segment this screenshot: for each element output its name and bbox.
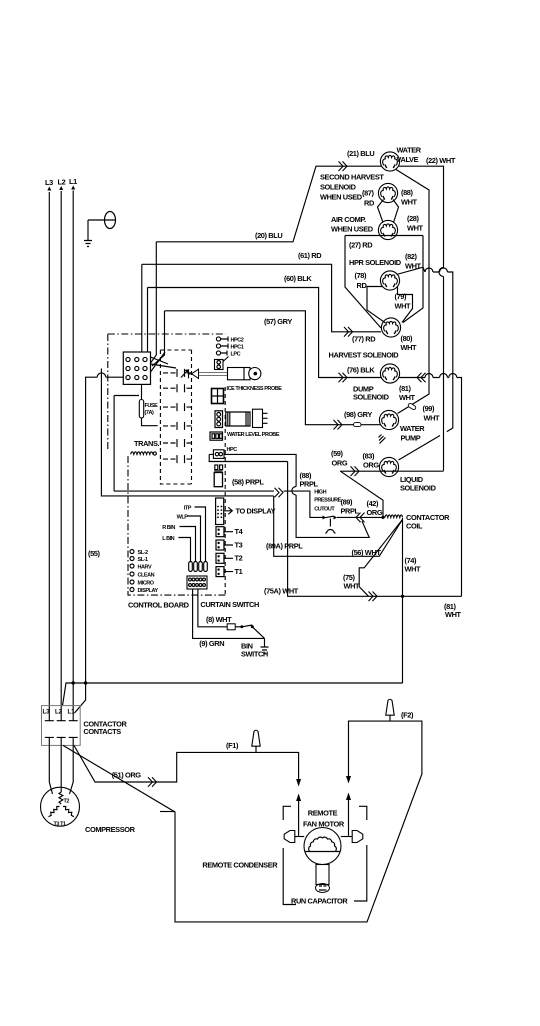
- svg-text:HARVEST SOLENOID: HARVEST SOLENOID: [329, 351, 400, 360]
- ground hatch at water pump: [379, 435, 386, 444]
- svg-text:HPC: HPC: [227, 447, 238, 453]
- contactor coil K1: [385, 513, 450, 531]
- wire (51) ORG: [74, 745, 299, 786]
- wire (9) GRN: [193, 589, 265, 648]
- svg-text:HPC2: HPC2: [231, 338, 244, 344]
- svg-text:(51) ORG: (51) ORG: [112, 771, 142, 780]
- ice thickness probe plug: [189, 369, 228, 378]
- svg-text:CONTACTS: CONTACTS: [83, 727, 121, 736]
- board connector fan wires: [151, 352, 177, 372]
- label SECOND HARVEST SOLENOID WHEN USED: [320, 173, 384, 202]
- svg-text:(98) GRY: (98) GRY: [344, 410, 372, 419]
- fan motor spade terminal right: [341, 831, 363, 843]
- wire (75A) WHT: [209, 454, 461, 596]
- svg-text:WATER: WATER: [400, 424, 425, 433]
- compressor motor: [41, 745, 80, 827]
- wire (59) ORG: [331, 449, 348, 468]
- svg-text:ORG: ORG: [363, 461, 379, 470]
- connector HPC: [213, 447, 237, 458]
- svg-text:(F2): (F2): [401, 711, 414, 720]
- svg-text:PRPL: PRPL: [300, 480, 319, 489]
- svg-text:MICRO: MICRO: [138, 581, 155, 587]
- contactor contacts box: [42, 706, 81, 746]
- ground symbol at service entrance: [84, 220, 92, 247]
- svg-text:ORG: ORG: [332, 459, 348, 468]
- node L3 supply terminal: [45, 178, 53, 706]
- svg-text:L1: L1: [68, 710, 76, 716]
- svg-text:(8) WHT: (8) WHT: [206, 615, 232, 624]
- node L2 supply terminal: [58, 178, 66, 707]
- svg-text:SOLENOID: SOLENOID: [320, 183, 357, 192]
- svg-text:WHT: WHT: [407, 224, 424, 233]
- wire (89) PRPL: [337, 498, 385, 523]
- svg-text:WHT: WHT: [401, 198, 418, 207]
- wire (87) RD: [362, 189, 384, 223]
- svg-text:WHT: WHT: [405, 565, 422, 574]
- wire (88) PRPL from HPC: [209, 454, 369, 537]
- wire (28) WHT: [407, 214, 424, 233]
- svg-text:WHT: WHT: [445, 610, 462, 619]
- svg-text:AIR COMP.: AIR COMP.: [331, 215, 366, 224]
- svg-text:(87): (87): [362, 189, 375, 198]
- svg-text:RD: RD: [357, 281, 368, 290]
- wire (61) RD: [142, 251, 381, 352]
- solenoid WATER VALVE: [380, 146, 421, 172]
- svg-text:(81): (81): [399, 384, 412, 393]
- svg-text:(77) RD: (77) RD: [352, 335, 376, 344]
- svg-text:FUSE: FUSE: [145, 403, 159, 409]
- wire (81) WHT from dump: [399, 373, 462, 597]
- svg-text:(83): (83): [363, 452, 376, 461]
- svg-text:(59): (59): [331, 449, 344, 458]
- svg-text:PRESSURE: PRESSURE: [314, 498, 341, 504]
- svg-text:HIGH: HIGH: [314, 490, 326, 496]
- svg-text:RUN CAPACITOR: RUN CAPACITOR: [291, 897, 348, 906]
- relay box on board: [160, 350, 191, 484]
- svg-text:SL-1: SL-1: [138, 557, 149, 563]
- svg-text:ORG: ORG: [367, 508, 383, 517]
- remote fan motor: [303, 809, 345, 865]
- svg-text:RD: RD: [364, 199, 375, 208]
- svg-text:(75A) WHT: (75A) WHT: [264, 587, 299, 596]
- svg-text:SWITCH: SWITCH: [241, 650, 268, 659]
- svg-text:T2: T2: [235, 554, 243, 563]
- water level probe window: [212, 389, 224, 404]
- wire (58) PRPL: [101, 369, 322, 518]
- terminal T2: [216, 553, 243, 563]
- svg-text:SOLENOID: SOLENOID: [353, 393, 390, 402]
- svg-text:(7A): (7A): [145, 410, 155, 416]
- svg-text:VALVE: VALVE: [397, 155, 419, 164]
- fan assembly corner brackets: [283, 806, 367, 904]
- wire TO DISPLAY: [224, 507, 276, 516]
- fuse F1 7A: [139, 384, 158, 425]
- wire (99) WHT riser from water valve: [396, 170, 440, 423]
- terminal T1: [216, 567, 243, 577]
- label CONTACTOR CONTACTS: [83, 720, 127, 737]
- solenoid LIQUID: [379, 457, 436, 492]
- svg-text:CUTOUT: CUTOUT: [314, 507, 335, 513]
- wire (55): [75, 373, 124, 713]
- svg-text:(89A) PRPL: (89A) PRPL: [266, 542, 303, 551]
- wire (82) WHT: [397, 252, 453, 460]
- svg-text:ICE THICKNESS PROBE: ICE THICKNESS PROBE: [227, 386, 283, 392]
- solenoid AIR COMP: [378, 220, 397, 239]
- wire (81) WHT label lower: [444, 602, 462, 619]
- run capacitor: [291, 865, 348, 906]
- svg-text:SOLENOID: SOLENOID: [400, 484, 437, 493]
- connector arrows fan motor right: [346, 776, 351, 836]
- svg-text:CLEAN: CLEAN: [138, 573, 155, 579]
- svg-text:SECOND HARVEST: SECOND HARVEST: [320, 173, 384, 182]
- svg-text:DISPLAY: DISPLAY: [138, 588, 159, 594]
- high pressure cutout switch HPCO: [314, 490, 341, 534]
- control board outline: [108, 334, 226, 595]
- svg-text:(78): (78): [355, 271, 368, 280]
- svg-text:(22) WHT: (22) WHT: [426, 156, 456, 165]
- connector 3 hole: [210, 432, 223, 440]
- svg-text:(F1): (F1): [226, 741, 239, 750]
- svg-text:(21) BLU: (21) BLU: [347, 149, 374, 158]
- water pump motor: [379, 410, 425, 442]
- svg-text:SL-2: SL-2: [138, 550, 149, 556]
- svg-text:L BIN: L BIN: [162, 536, 174, 542]
- svg-text:(61) RD: (61) RD: [298, 251, 322, 260]
- connector arrows fan motor left: [296, 779, 301, 836]
- svg-text:L3: L3: [45, 178, 53, 187]
- svg-text:PRPL: PRPL: [341, 507, 360, 516]
- contactor contact L3: [45, 706, 54, 745]
- svg-text:(55): (55): [88, 549, 101, 558]
- svg-text:WHEN USED: WHEN USED: [331, 225, 374, 234]
- svg-text:HPR SOLENOID: HPR SOLENOID: [349, 258, 402, 267]
- LED indicators column: [130, 550, 158, 595]
- svg-text:WHT: WHT: [401, 343, 418, 352]
- curtain switch connector grid: [187, 576, 207, 589]
- svg-text:LPC: LPC: [231, 352, 241, 358]
- terminal T3: [216, 540, 243, 550]
- svg-text:WATER: WATER: [397, 146, 422, 155]
- wire (75) WHT: [343, 520, 403, 602]
- board edge pins HPC2 HPC1 LPC: [215, 337, 244, 370]
- contactor contact L2: [57, 706, 66, 745]
- wire (78) RD: [355, 271, 386, 323]
- svg-text:(57) GRY: (57) GRY: [264, 317, 292, 326]
- wire (88) WHT: [393, 188, 418, 223]
- plug F2: [386, 699, 394, 721]
- svg-text:WHEN USED: WHEN USED: [320, 193, 363, 202]
- wire (80)/(28) WHT bus: [403, 236, 423, 323]
- wire (8) WHT curtain switch: [198, 589, 265, 638]
- svg-text:CURTAIN SWITCH: CURTAIN SWITCH: [200, 600, 259, 609]
- svg-text:ITP: ITP: [184, 506, 192, 512]
- wire R BIN: [162, 525, 195, 562]
- wire (27) RD bus: [345, 236, 423, 329]
- svg-text:(79): (79): [395, 292, 408, 301]
- svg-text:(80): (80): [401, 334, 414, 343]
- wire (60) BLK: [148, 274, 382, 382]
- board input connector J1: [123, 352, 150, 384]
- water level probe: [215, 409, 280, 438]
- terminal T4: [216, 527, 244, 537]
- svg-text:(28): (28): [407, 214, 420, 223]
- svg-text:COIL: COIL: [406, 522, 423, 531]
- svg-text:(88): (88): [401, 188, 414, 197]
- svg-text:(60) BLK: (60) BLK: [284, 274, 312, 283]
- svg-text:(82): (82): [405, 252, 418, 261]
- svg-text:L1: L1: [69, 177, 77, 186]
- svg-text:REMOTE CONDENSER: REMOTE CONDENSER: [202, 861, 278, 870]
- wire (74) WHT: [401, 518, 421, 683]
- svg-text:T1: T1: [235, 567, 243, 576]
- svg-text:(20) BLU: (20) BLU: [255, 231, 282, 240]
- svg-text:TO DISPLAY: TO DISPLAY: [236, 507, 276, 516]
- svg-text:T3: T3: [235, 540, 243, 549]
- wire (80) WHT: [401, 334, 418, 352]
- svg-text:(89): (89): [341, 498, 354, 507]
- svg-text:WLP: WLP: [177, 515, 189, 521]
- svg-text:WHT: WHT: [399, 393, 416, 402]
- contactor contact L1: [69, 706, 78, 745]
- svg-text:(58) PRPL: (58) PRPL: [232, 478, 264, 487]
- wire L BIN: [162, 536, 190, 562]
- wire (83) ORG: [340, 452, 443, 518]
- svg-text:PUMP: PUMP: [401, 434, 421, 443]
- svg-text:(42): (42): [367, 499, 380, 508]
- svg-text:L2: L2: [58, 178, 66, 187]
- svg-text:REMOTE: REMOTE: [308, 809, 338, 818]
- svg-text:WHT: WHT: [424, 414, 441, 423]
- plug F1: [226, 730, 260, 752]
- board edge relay component: [214, 465, 222, 487]
- wire (57) GRY: [152, 311, 381, 430]
- svg-text:T3 T1: T3 T1: [54, 822, 67, 828]
- relay contacts rows: [163, 369, 194, 463]
- wire ITP: [184, 506, 206, 562]
- svg-text:WHT: WHT: [405, 262, 422, 271]
- ice thickness probe: [227, 368, 283, 393]
- svg-text:COMPRESSOR: COMPRESSOR: [85, 825, 136, 834]
- svg-text:HPC1: HPC1: [231, 345, 244, 351]
- wire (42) ORG: [367, 499, 385, 519]
- svg-text:R BIN: R BIN: [162, 525, 175, 531]
- wire WLP: [177, 515, 201, 562]
- ground receptacle lug: [88, 212, 116, 229]
- display connector: [216, 498, 224, 525]
- solenoid SECOND HARVEST: [378, 183, 397, 202]
- svg-text:WHT: WHT: [395, 302, 412, 311]
- wire (22) WHT: [399, 156, 456, 471]
- bin switch ground: [241, 638, 269, 658]
- solenoid DUMP: [353, 364, 400, 402]
- svg-text:HARV: HARV: [138, 565, 152, 571]
- label AIR COMP WHEN USED: [331, 215, 374, 234]
- svg-text:CONTROL BOARD: CONTROL BOARD: [128, 601, 190, 610]
- svg-text:(9) GRN: (9) GRN: [199, 639, 224, 648]
- solenoid HPR: [380, 271, 399, 290]
- svg-text:WHT: WHT: [344, 582, 361, 591]
- node L1 supply terminal: [69, 177, 77, 706]
- transformer T1: [131, 439, 160, 455]
- svg-text:(27) RD: (27) RD: [349, 241, 373, 250]
- wire (74) WHT return bus to contactor: [63, 681, 403, 705]
- svg-text:(99): (99): [423, 404, 436, 413]
- svg-text:T2: T2: [64, 799, 70, 805]
- condenser fan feed wire via F2: [63, 711, 422, 922]
- fan motor spade terminal left: [284, 831, 304, 843]
- svg-text:TRANS.: TRANS.: [134, 439, 160, 448]
- svg-text:WATER LEVEL PROBE: WATER LEVEL PROBE: [227, 432, 280, 438]
- svg-text:T4: T4: [235, 527, 244, 536]
- solenoid HARVEST: [329, 318, 401, 360]
- probe pin ovals: [189, 562, 208, 572]
- svg-text:(76) BLK: (76) BLK: [347, 366, 375, 375]
- wire (79) WHT: [395, 287, 413, 323]
- wire (56) WHT: [274, 496, 403, 557]
- wire (20) BLU: [151, 161, 382, 363]
